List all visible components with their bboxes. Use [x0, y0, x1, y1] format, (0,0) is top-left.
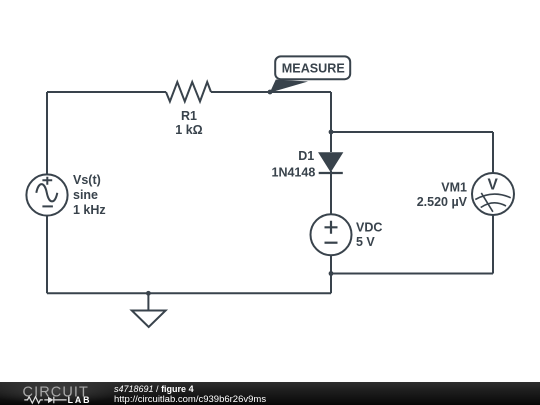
svg-text:VM1: VM1: [441, 181, 467, 195]
svg-text:1N4148: 1N4148: [272, 166, 316, 180]
svg-text:MEASURE: MEASURE: [282, 61, 345, 75]
svg-text:LAB: LAB: [68, 395, 92, 405]
svg-text:5 V: 5 V: [356, 235, 375, 249]
svg-text:VDC: VDC: [356, 220, 382, 234]
svg-text:Vs(t): Vs(t): [73, 173, 101, 187]
svg-text:1 kHz: 1 kHz: [73, 203, 106, 217]
svg-text:V: V: [488, 177, 499, 194]
svg-text:R1: R1: [181, 109, 197, 123]
svg-text:sine: sine: [73, 188, 98, 202]
svg-text:D1: D1: [298, 149, 314, 163]
svg-text:1 kΩ: 1 kΩ: [175, 123, 202, 137]
svg-text:2.520 µV: 2.520 µV: [417, 195, 468, 209]
